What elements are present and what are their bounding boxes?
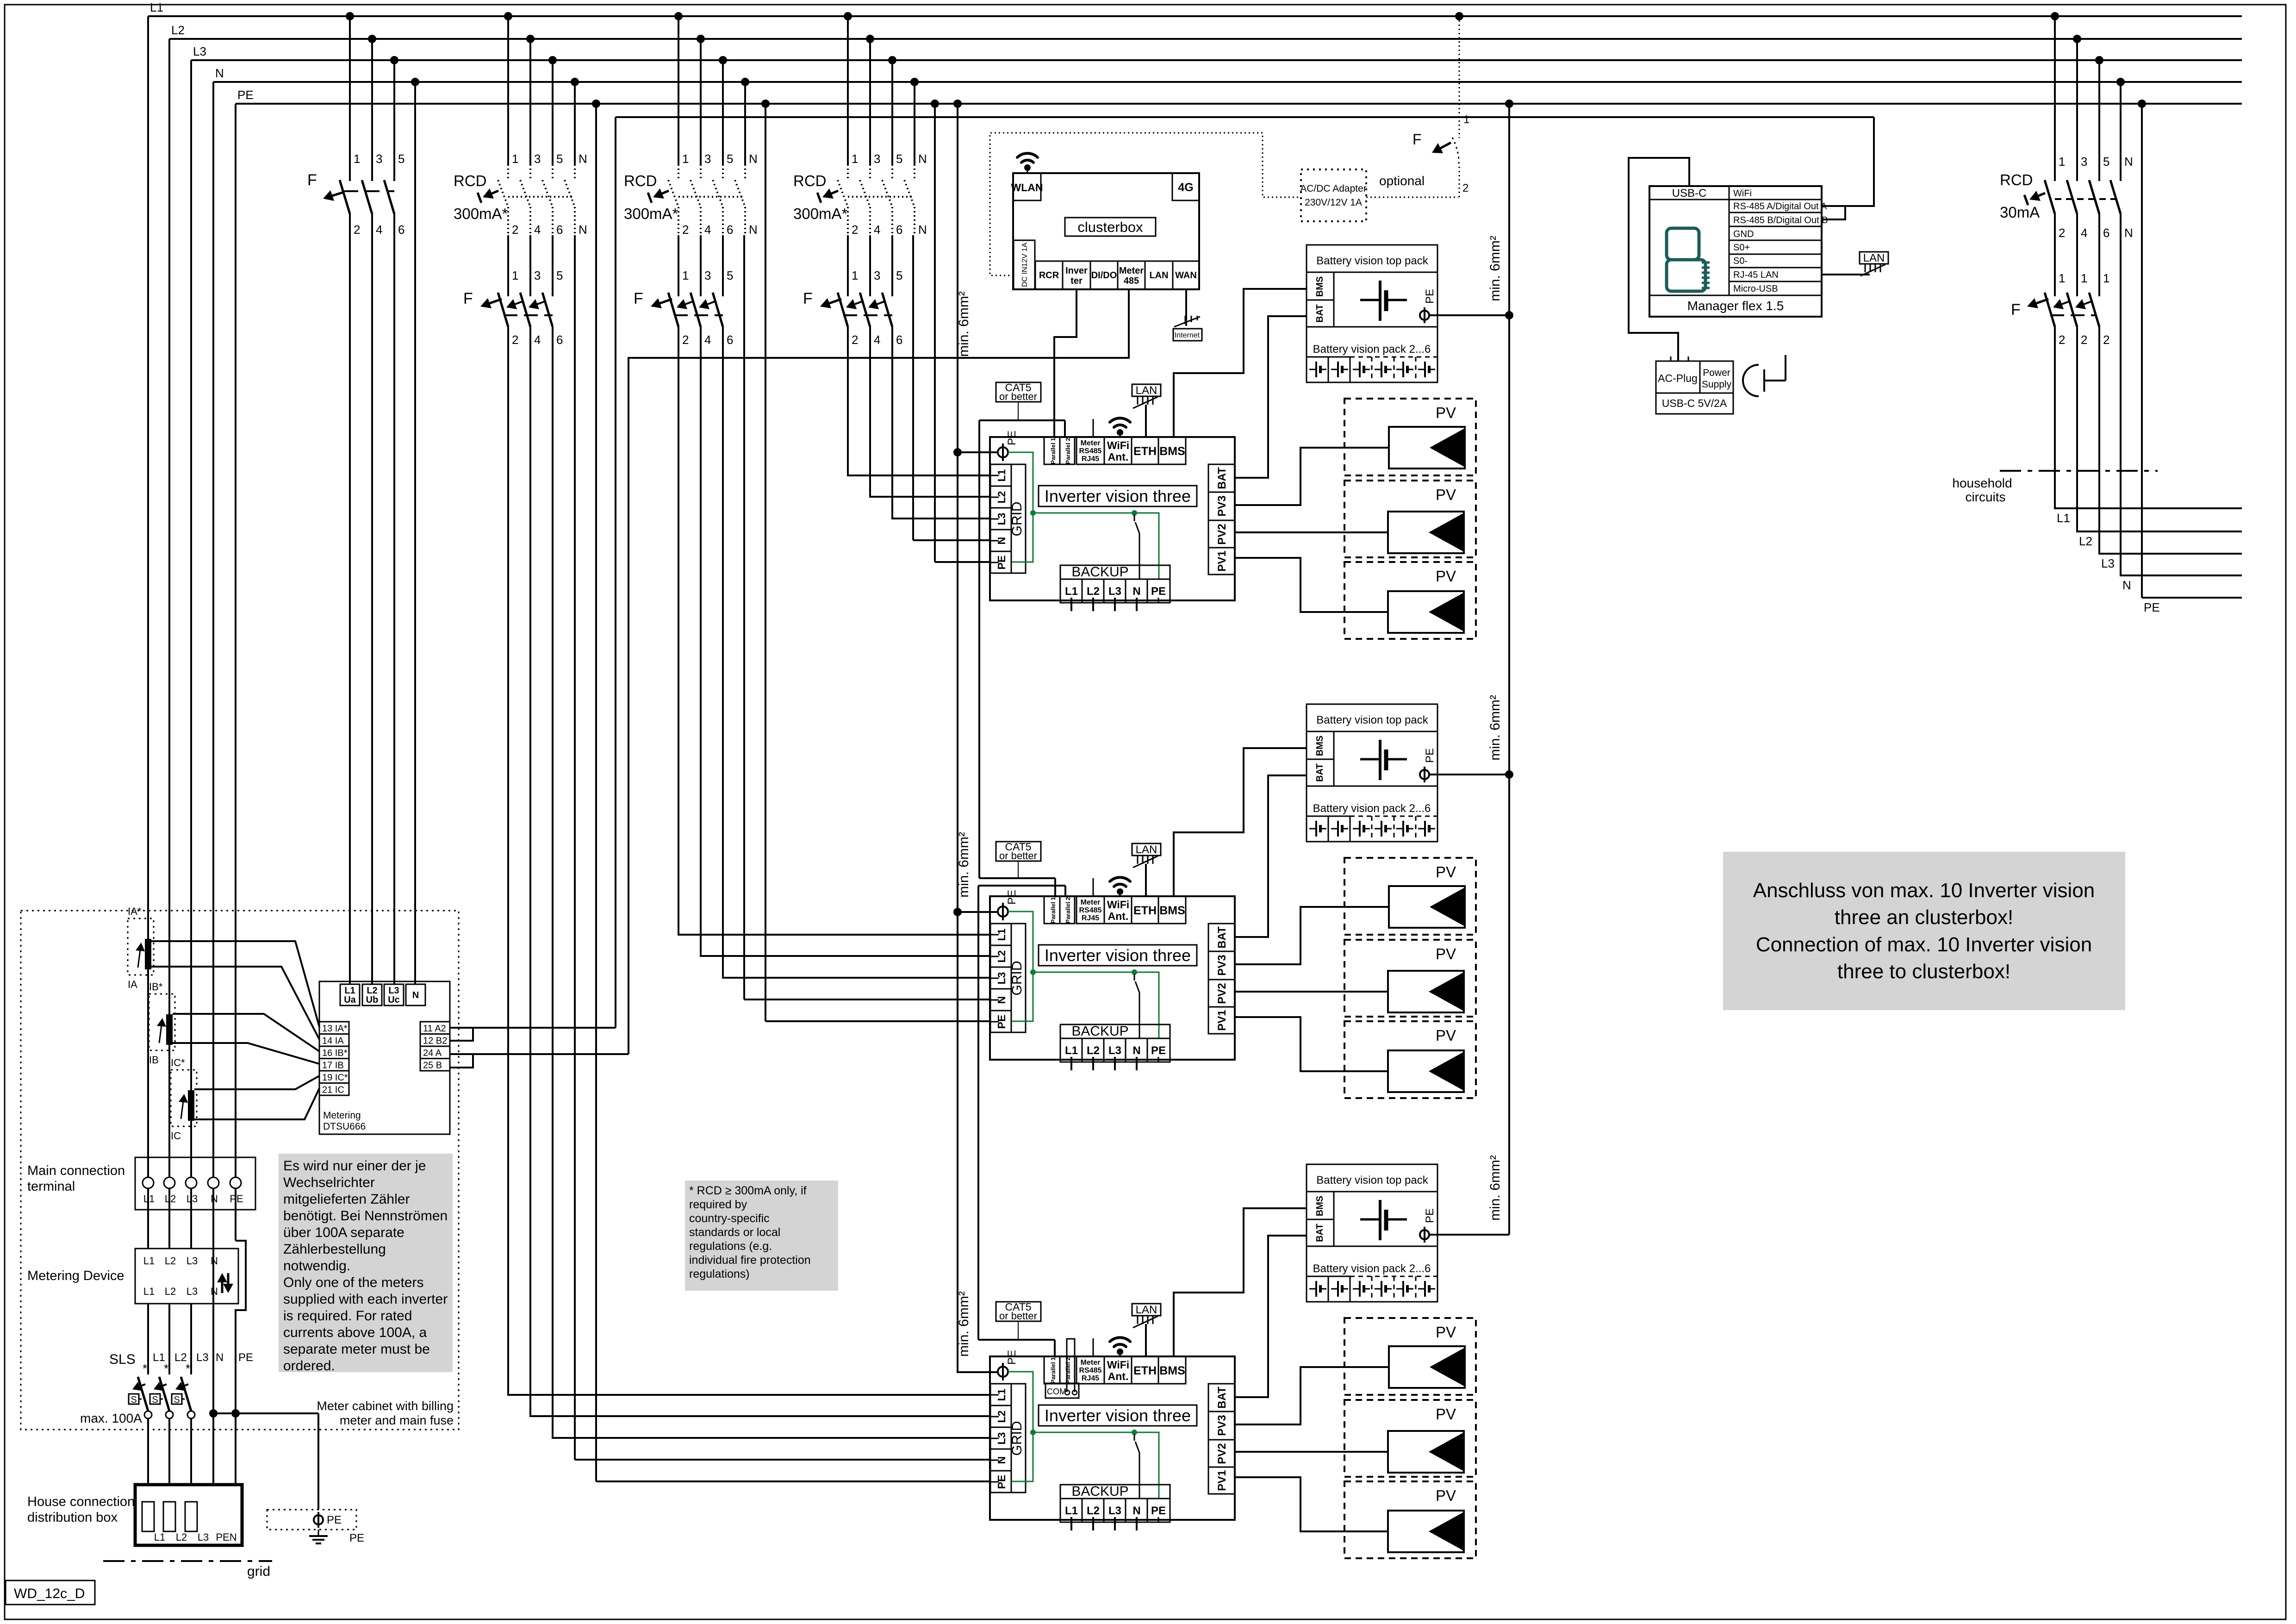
- svg-text:Parallel 1: Parallel 1: [1050, 1357, 1057, 1383]
- svg-text:terminal: terminal: [27, 1179, 75, 1194]
- svg-text:25 B: 25 B: [423, 1061, 442, 1071]
- svg-text:F: F: [2011, 301, 2021, 319]
- svg-text:3: 3: [704, 152, 711, 166]
- svg-text:PV3: PV3: [1216, 495, 1228, 516]
- svg-text:N: N: [216, 1351, 224, 1364]
- svg-text:PE: PE: [1006, 890, 1018, 905]
- svg-text:Main connection: Main connection: [27, 1163, 125, 1178]
- svg-text:RS-485 A/Digital Out A: RS-485 A/Digital Out A: [1733, 201, 1827, 212]
- svg-text:Battery vision top pack: Battery vision top pack: [1316, 714, 1428, 726]
- svg-text:separate meter must be: separate meter must be: [283, 1342, 430, 1357]
- svg-text:L1: L1: [143, 1286, 155, 1297]
- svg-text:3: 3: [376, 152, 382, 166]
- svg-text:4: 4: [704, 333, 711, 347]
- svg-text:individual fire protection: individual fire protection: [689, 1254, 811, 1267]
- svg-text:BMS: BMS: [1159, 445, 1185, 458]
- svg-text:2: 2: [1462, 182, 1468, 194]
- svg-text:IC*: IC*: [171, 1057, 185, 1068]
- svg-text:L2: L2: [1087, 1044, 1100, 1057]
- svg-text:or better: or better: [999, 1310, 1037, 1322]
- svg-text:6: 6: [556, 223, 563, 237]
- svg-text:Parallel 1: Parallel 1: [1050, 897, 1057, 923]
- svg-text:S: S: [152, 1395, 158, 1405]
- svg-text:5: 5: [398, 152, 404, 166]
- svg-text:L3: L3: [1108, 585, 1121, 598]
- svg-text:Ant.: Ant.: [1108, 451, 1129, 463]
- svg-text:Only one of the meters: Only one of the meters: [283, 1275, 424, 1290]
- svg-text:4: 4: [704, 223, 711, 237]
- svg-text:16 IB*: 16 IB*: [322, 1048, 348, 1058]
- svg-text:5: 5: [727, 152, 733, 166]
- svg-text:Es wird nur einer der je: Es wird nur einer der je: [283, 1158, 426, 1174]
- svg-text:1: 1: [2059, 271, 2065, 285]
- svg-text:COM: COM: [1047, 1387, 1066, 1396]
- svg-text:S0-: S0-: [1733, 256, 1748, 266]
- svg-text:Ant.: Ant.: [1108, 1370, 1129, 1382]
- svg-text:PV1: PV1: [1216, 550, 1228, 571]
- svg-text:F: F: [463, 290, 473, 307]
- svg-text:19 IC*: 19 IC*: [322, 1073, 348, 1083]
- svg-text:USB-C: USB-C: [1672, 187, 1707, 200]
- svg-text:three an clusterbox!: three an clusterbox!: [1835, 906, 2013, 929]
- svg-text:6: 6: [2103, 226, 2109, 240]
- svg-text:Meter: Meter: [1081, 1359, 1101, 1367]
- svg-text:Uc: Uc: [388, 995, 400, 1005]
- svg-text:max. 100A: max. 100A: [80, 1411, 142, 1425]
- svg-text:min. 6mm²: min. 6mm²: [956, 832, 971, 898]
- svg-text:1: 1: [852, 152, 858, 166]
- svg-text:RS485: RS485: [1079, 1367, 1102, 1374]
- svg-text:N: N: [918, 152, 927, 166]
- svg-text:min. 6mm²: min. 6mm²: [956, 1291, 971, 1357]
- svg-text:2: 2: [2081, 333, 2087, 347]
- svg-text:BMS: BMS: [1315, 736, 1325, 756]
- svg-text:Parallel 2: Parallel 2: [1064, 897, 1071, 923]
- svg-text:230V/12V 1A: 230V/12V 1A: [1305, 197, 1362, 208]
- svg-text:300mA*: 300mA*: [793, 205, 848, 222]
- svg-text:F: F: [634, 290, 643, 307]
- svg-text:5: 5: [896, 152, 902, 166]
- svg-text:SLS: SLS: [109, 1352, 136, 1367]
- svg-text:L2: L2: [165, 1286, 176, 1297]
- svg-text:Wechselrichter: Wechselrichter: [283, 1175, 375, 1190]
- svg-text:3: 3: [704, 269, 711, 282]
- svg-text:N: N: [579, 223, 587, 237]
- svg-text:Zählerbestellung: Zählerbestellung: [283, 1242, 386, 1257]
- svg-text:BMS: BMS: [1315, 1196, 1325, 1216]
- svg-text:N: N: [1132, 1505, 1140, 1517]
- svg-text:GRID: GRID: [1009, 1421, 1025, 1456]
- svg-text:Battery vision top pack: Battery vision top pack: [1316, 255, 1428, 267]
- svg-text:1: 1: [852, 269, 858, 282]
- svg-text:PE: PE: [237, 88, 254, 102]
- svg-text:L3: L3: [187, 1255, 198, 1267]
- svg-text:N: N: [215, 66, 224, 80]
- svg-text:30mA: 30mA: [2000, 204, 2040, 221]
- svg-text:PV: PV: [1436, 1324, 1456, 1341]
- svg-text:Supply: Supply: [1702, 379, 1732, 390]
- svg-text:2: 2: [682, 333, 689, 347]
- svg-text:PV2: PV2: [1216, 983, 1228, 1004]
- svg-text:LAN: LAN: [1136, 384, 1157, 397]
- svg-text:über 100A separate: über 100A separate: [283, 1225, 404, 1240]
- svg-text:PV: PV: [1436, 1027, 1456, 1044]
- svg-text:RCD: RCD: [2000, 171, 2033, 188]
- svg-text:household: household: [1952, 476, 2012, 490]
- svg-text:Meter: Meter: [1119, 266, 1144, 276]
- svg-text:Anschluss von max. 10 Inverter: Anschluss von max. 10 Inverter vision: [1753, 879, 2095, 902]
- svg-text:S: S: [131, 1395, 137, 1405]
- svg-text:min. 6mm²: min. 6mm²: [1487, 1155, 1503, 1221]
- svg-text:1: 1: [2081, 271, 2087, 285]
- svg-text:L2: L2: [176, 1531, 187, 1543]
- svg-text:IA: IA: [128, 979, 137, 990]
- svg-text:IA*: IA*: [128, 906, 142, 917]
- svg-text:BMS: BMS: [1315, 276, 1325, 297]
- svg-text:PE: PE: [1424, 289, 1436, 304]
- svg-text:GND: GND: [1733, 229, 1754, 239]
- svg-text:BAT: BAT: [1216, 1387, 1228, 1409]
- svg-text:DTSU666: DTSU666: [323, 1121, 366, 1132]
- svg-text:PE: PE: [1151, 1505, 1166, 1517]
- svg-text:L1: L1: [154, 1531, 165, 1543]
- svg-text:Micro-USB: Micro-USB: [1733, 284, 1778, 294]
- svg-text:PE: PE: [1424, 1208, 1436, 1223]
- svg-text:1: 1: [2059, 155, 2065, 169]
- svg-text:1: 1: [354, 152, 360, 166]
- svg-text:LAN: LAN: [1136, 843, 1157, 856]
- svg-text:BMS: BMS: [1159, 904, 1185, 917]
- svg-text:RS485: RS485: [1079, 447, 1102, 455]
- svg-text:IB*: IB*: [149, 981, 163, 993]
- svg-text:Battery vision pack 2...6: Battery vision pack 2...6: [1313, 343, 1431, 356]
- svg-text:BACKUP: BACKUP: [1071, 1024, 1128, 1039]
- svg-text:required by: required by: [689, 1198, 747, 1211]
- svg-text:L1: L1: [143, 1255, 155, 1267]
- svg-text:AC/DC Adapter: AC/DC Adapter: [1300, 183, 1367, 194]
- svg-text:DI/DO: DI/DO: [1091, 270, 1117, 281]
- svg-text:mitgelieferten Zähler: mitgelieferten Zähler: [283, 1192, 410, 1207]
- svg-text:F: F: [803, 290, 813, 307]
- svg-text:RJ45: RJ45: [1082, 914, 1099, 922]
- svg-text:Battery vision pack 2...6: Battery vision pack 2...6: [1313, 802, 1431, 815]
- svg-text:RJ45: RJ45: [1082, 1374, 1099, 1382]
- svg-text:PV2: PV2: [1216, 524, 1228, 544]
- svg-text:PE: PE: [349, 1532, 364, 1544]
- svg-text:House connection: House connection: [27, 1494, 135, 1509]
- svg-text:L3: L3: [1108, 1044, 1121, 1057]
- svg-text:RJ45: RJ45: [1082, 455, 1099, 463]
- svg-text:N: N: [749, 152, 758, 166]
- svg-text:13 IA*: 13 IA*: [322, 1024, 348, 1034]
- svg-text:three to clusterbox!: three to clusterbox!: [1837, 960, 2010, 983]
- svg-text:*: *: [164, 1362, 168, 1375]
- svg-text:notwendig.: notwendig.: [283, 1258, 350, 1274]
- svg-text:ETH: ETH: [1133, 904, 1157, 917]
- svg-text:BAT: BAT: [1315, 763, 1325, 782]
- svg-text:Ub: Ub: [366, 995, 379, 1005]
- svg-text:3: 3: [534, 269, 541, 282]
- svg-text:*: *: [186, 1362, 190, 1375]
- svg-text:or better: or better: [999, 850, 1037, 862]
- svg-text:regulations (e.g.: regulations (e.g.: [689, 1240, 772, 1253]
- svg-text:3: 3: [874, 152, 880, 166]
- svg-text:3: 3: [874, 269, 880, 282]
- svg-text:BAT: BAT: [1216, 467, 1228, 489]
- svg-text:PV: PV: [1436, 568, 1456, 585]
- svg-text:L3: L3: [193, 44, 206, 58]
- svg-text:2: 2: [2103, 333, 2109, 347]
- svg-text:ordered.: ordered.: [283, 1358, 335, 1374]
- svg-text:6: 6: [398, 223, 404, 237]
- svg-text:BAT: BAT: [1315, 1224, 1325, 1242]
- svg-text:300mA*: 300mA*: [454, 205, 508, 222]
- svg-text:4G: 4G: [1178, 181, 1193, 194]
- svg-text:2: 2: [852, 223, 858, 237]
- svg-text:RCD: RCD: [454, 172, 487, 189]
- svg-text:RS485: RS485: [1079, 906, 1102, 914]
- svg-text:supplied with each inverter: supplied with each inverter: [283, 1292, 448, 1307]
- svg-text:Manager flex 1.5: Manager flex 1.5: [1687, 299, 1784, 313]
- svg-text:F: F: [1412, 131, 1422, 148]
- svg-text:BMS: BMS: [1159, 1364, 1185, 1377]
- svg-text:L2: L2: [1087, 585, 1100, 598]
- svg-text:L1: L1: [344, 986, 355, 996]
- svg-text:11 A2: 11 A2: [423, 1024, 446, 1034]
- svg-text:L2: L2: [174, 1351, 187, 1364]
- svg-text:1: 1: [1463, 113, 1469, 126]
- svg-text:N: N: [918, 223, 927, 237]
- svg-text:BAT: BAT: [1216, 926, 1228, 949]
- svg-text:4: 4: [2081, 226, 2087, 240]
- svg-text:min. 6mm²: min. 6mm²: [956, 291, 971, 357]
- svg-text:Ant.: Ant.: [1108, 910, 1129, 922]
- svg-text:DC IN12V 1A: DC IN12V 1A: [1021, 243, 1029, 287]
- svg-text:1: 1: [682, 269, 689, 282]
- svg-text:24 A: 24 A: [423, 1048, 442, 1058]
- svg-text:L2: L2: [2079, 534, 2092, 548]
- svg-text:PV: PV: [1436, 404, 1456, 421]
- svg-text:21 IC: 21 IC: [322, 1085, 344, 1095]
- svg-text:WLAN: WLAN: [1011, 181, 1043, 194]
- svg-text:ETH: ETH: [1133, 445, 1157, 458]
- svg-text:1: 1: [682, 152, 689, 166]
- svg-text:Metering Device: Metering Device: [27, 1268, 124, 1283]
- svg-text:distribution box: distribution box: [27, 1510, 118, 1525]
- svg-text:6: 6: [896, 333, 902, 347]
- svg-text:RCD: RCD: [793, 172, 827, 189]
- svg-text:PE: PE: [1151, 585, 1166, 598]
- svg-text:L2: L2: [165, 1255, 176, 1267]
- svg-text:country-specific: country-specific: [689, 1212, 770, 1225]
- svg-text:PE: PE: [327, 1514, 342, 1526]
- svg-text:PV: PV: [1436, 863, 1456, 881]
- svg-text:ter: ter: [1070, 276, 1083, 286]
- svg-text:Meter: Meter: [1081, 439, 1101, 447]
- svg-text:Battery vision pack 2...6: Battery vision pack 2...6: [1313, 1262, 1431, 1275]
- svg-text:4: 4: [534, 223, 541, 237]
- svg-text:BAT: BAT: [1315, 304, 1325, 323]
- svg-text:IB: IB: [149, 1054, 159, 1066]
- svg-text:LAN: LAN: [1863, 252, 1885, 264]
- svg-text:L1: L1: [1065, 585, 1078, 598]
- svg-text:Power: Power: [1703, 368, 1730, 378]
- svg-text:3: 3: [534, 152, 541, 166]
- svg-text:L3: L3: [2101, 556, 2115, 570]
- svg-text:* RCD ≥ 300mA only, if: * RCD ≥ 300mA only, if: [689, 1184, 807, 1197]
- svg-text:PV: PV: [1436, 1405, 1456, 1423]
- svg-text:L3: L3: [187, 1286, 198, 1297]
- svg-text:5: 5: [2103, 155, 2109, 169]
- svg-text:N: N: [412, 990, 419, 1000]
- svg-text:N: N: [2124, 155, 2133, 169]
- svg-text:standards or local: standards or local: [689, 1226, 780, 1239]
- svg-text:PV1: PV1: [1216, 1010, 1228, 1031]
- svg-text:LAN: LAN: [1149, 270, 1168, 281]
- svg-text:4: 4: [534, 333, 541, 347]
- svg-text:4: 4: [874, 333, 880, 347]
- svg-text:PV1: PV1: [1216, 1470, 1228, 1491]
- svg-text:Internet: Internet: [1175, 331, 1200, 339]
- svg-text:F: F: [307, 171, 317, 189]
- svg-text:2: 2: [512, 333, 518, 347]
- svg-text:L2: L2: [1087, 1505, 1100, 1517]
- svg-text:2: 2: [682, 223, 689, 237]
- svg-text:N: N: [749, 223, 758, 237]
- svg-text:N: N: [1132, 1044, 1140, 1057]
- svg-text:GRID: GRID: [1009, 961, 1025, 996]
- svg-text:L3: L3: [1108, 1505, 1121, 1517]
- svg-text:L1: L1: [1065, 1505, 1078, 1517]
- svg-text:L1: L1: [2057, 511, 2070, 525]
- svg-text:RCD: RCD: [624, 172, 657, 189]
- svg-text:Meter cabinet with billing: Meter cabinet with billing: [317, 1399, 454, 1413]
- svg-text:Ua: Ua: [344, 995, 356, 1005]
- svg-text:5: 5: [896, 269, 902, 282]
- svg-text:Parallel 2: Parallel 2: [1064, 437, 1071, 464]
- svg-text:L1: L1: [153, 1351, 165, 1364]
- svg-text:2: 2: [852, 333, 858, 347]
- svg-text:6: 6: [727, 333, 733, 347]
- svg-text:2: 2: [2059, 226, 2065, 240]
- svg-text:4: 4: [874, 223, 880, 237]
- svg-text:1: 1: [512, 152, 518, 166]
- svg-text:5: 5: [556, 269, 563, 282]
- svg-text:1: 1: [512, 269, 518, 282]
- svg-text:L1: L1: [1065, 1044, 1078, 1057]
- svg-text:PV3: PV3: [1216, 955, 1228, 975]
- svg-text:N: N: [2124, 226, 2133, 240]
- svg-text:Parallel 2: Parallel 2: [1064, 1357, 1071, 1383]
- svg-text:PE: PE: [1006, 1350, 1018, 1365]
- svg-text:Inverter vision three: Inverter vision three: [1045, 946, 1191, 965]
- svg-text:Inver: Inver: [1065, 266, 1088, 276]
- svg-text:6: 6: [896, 223, 902, 237]
- svg-text:12 B2: 12 B2: [423, 1036, 447, 1046]
- svg-text:PV: PV: [1436, 486, 1456, 503]
- svg-text:PE: PE: [1424, 748, 1436, 763]
- svg-text:is required. For rated: is required. For rated: [283, 1308, 412, 1324]
- svg-text:optional: optional: [1379, 174, 1425, 188]
- svg-text:N: N: [1132, 585, 1140, 598]
- svg-text:PE: PE: [238, 1351, 253, 1364]
- svg-text:L3: L3: [388, 986, 399, 996]
- svg-text:*: *: [143, 1362, 147, 1375]
- svg-text:S0+: S0+: [1733, 243, 1750, 253]
- svg-text:min. 6mm²: min. 6mm²: [1487, 695, 1503, 761]
- svg-text:485: 485: [1124, 276, 1139, 286]
- svg-text:WiFi: WiFi: [1733, 188, 1752, 199]
- svg-text:RS-485 B/Digital Out B: RS-485 B/Digital Out B: [1733, 215, 1828, 225]
- svg-text:N: N: [579, 152, 587, 166]
- svg-text:3: 3: [2081, 155, 2087, 169]
- svg-text:grid: grid: [247, 1564, 270, 1579]
- svg-text:14 IA: 14 IA: [322, 1036, 344, 1046]
- svg-text:6: 6: [727, 223, 733, 237]
- svg-text:or better: or better: [999, 391, 1037, 402]
- svg-text:Connection of max. 10 Inverter: Connection of max. 10 Inverter vision: [1756, 933, 2092, 956]
- svg-text:5: 5: [727, 269, 733, 282]
- svg-text:WiFi: WiFi: [1107, 1359, 1129, 1371]
- svg-text:USB-C 5V/2A: USB-C 5V/2A: [1662, 397, 1727, 409]
- svg-text:Meter: Meter: [1081, 899, 1101, 906]
- svg-text:L1: L1: [150, 0, 163, 14]
- svg-text:Parallel 1: Parallel 1: [1050, 437, 1057, 464]
- svg-text:circuits: circuits: [1965, 490, 2005, 504]
- svg-text:300mA*: 300mA*: [624, 205, 678, 222]
- svg-text:PE: PE: [1151, 1044, 1166, 1057]
- svg-text:meter and main fuse: meter and main fuse: [340, 1413, 454, 1427]
- svg-text:clusterbox: clusterbox: [1077, 219, 1143, 235]
- svg-text:PE: PE: [2144, 600, 2160, 614]
- svg-text:2: 2: [354, 223, 360, 237]
- svg-text:RCR: RCR: [1039, 270, 1059, 281]
- svg-text:PV3: PV3: [1216, 1415, 1228, 1436]
- svg-text:PE: PE: [1006, 431, 1018, 445]
- svg-text:6: 6: [556, 333, 563, 347]
- svg-text:ETH: ETH: [1133, 1364, 1157, 1377]
- svg-text:L2: L2: [367, 986, 377, 996]
- svg-text:IC: IC: [171, 1130, 181, 1142]
- svg-text:Battery vision top pack: Battery vision top pack: [1316, 1174, 1428, 1187]
- svg-text:Inverter vision three: Inverter vision three: [1045, 487, 1191, 506]
- svg-text:2: 2: [2059, 333, 2065, 347]
- svg-text:L3: L3: [198, 1531, 209, 1543]
- svg-text:N: N: [2122, 578, 2131, 592]
- svg-text:benötigt. Bei Nennströmen: benötigt. Bei Nennströmen: [283, 1208, 448, 1224]
- svg-text:PV2: PV2: [1216, 1443, 1228, 1464]
- svg-text:LAN: LAN: [1136, 1304, 1157, 1316]
- svg-text:L3: L3: [196, 1351, 209, 1364]
- svg-text:5: 5: [556, 152, 563, 166]
- svg-text:Inverter vision three: Inverter vision three: [1045, 1406, 1191, 1425]
- svg-text:min. 6mm²: min. 6mm²: [1487, 236, 1503, 301]
- svg-text:GRID: GRID: [1009, 502, 1025, 537]
- svg-text:Metering: Metering: [323, 1110, 361, 1121]
- svg-text:WiFi: WiFi: [1107, 439, 1129, 451]
- svg-text:PV: PV: [1436, 1487, 1456, 1504]
- svg-text:S: S: [174, 1395, 180, 1405]
- svg-text:1: 1: [2103, 271, 2109, 285]
- svg-text:currents above 100A, a: currents above 100A, a: [283, 1325, 427, 1340]
- svg-text:regulations): regulations): [689, 1268, 750, 1280]
- svg-text:BACKUP: BACKUP: [1071, 1484, 1128, 1499]
- svg-text:L2: L2: [171, 23, 185, 37]
- svg-text:4: 4: [376, 223, 382, 237]
- svg-text:AC-Plug: AC-Plug: [1658, 372, 1698, 384]
- svg-text:PV: PV: [1436, 945, 1456, 962]
- svg-text:2: 2: [512, 223, 518, 237]
